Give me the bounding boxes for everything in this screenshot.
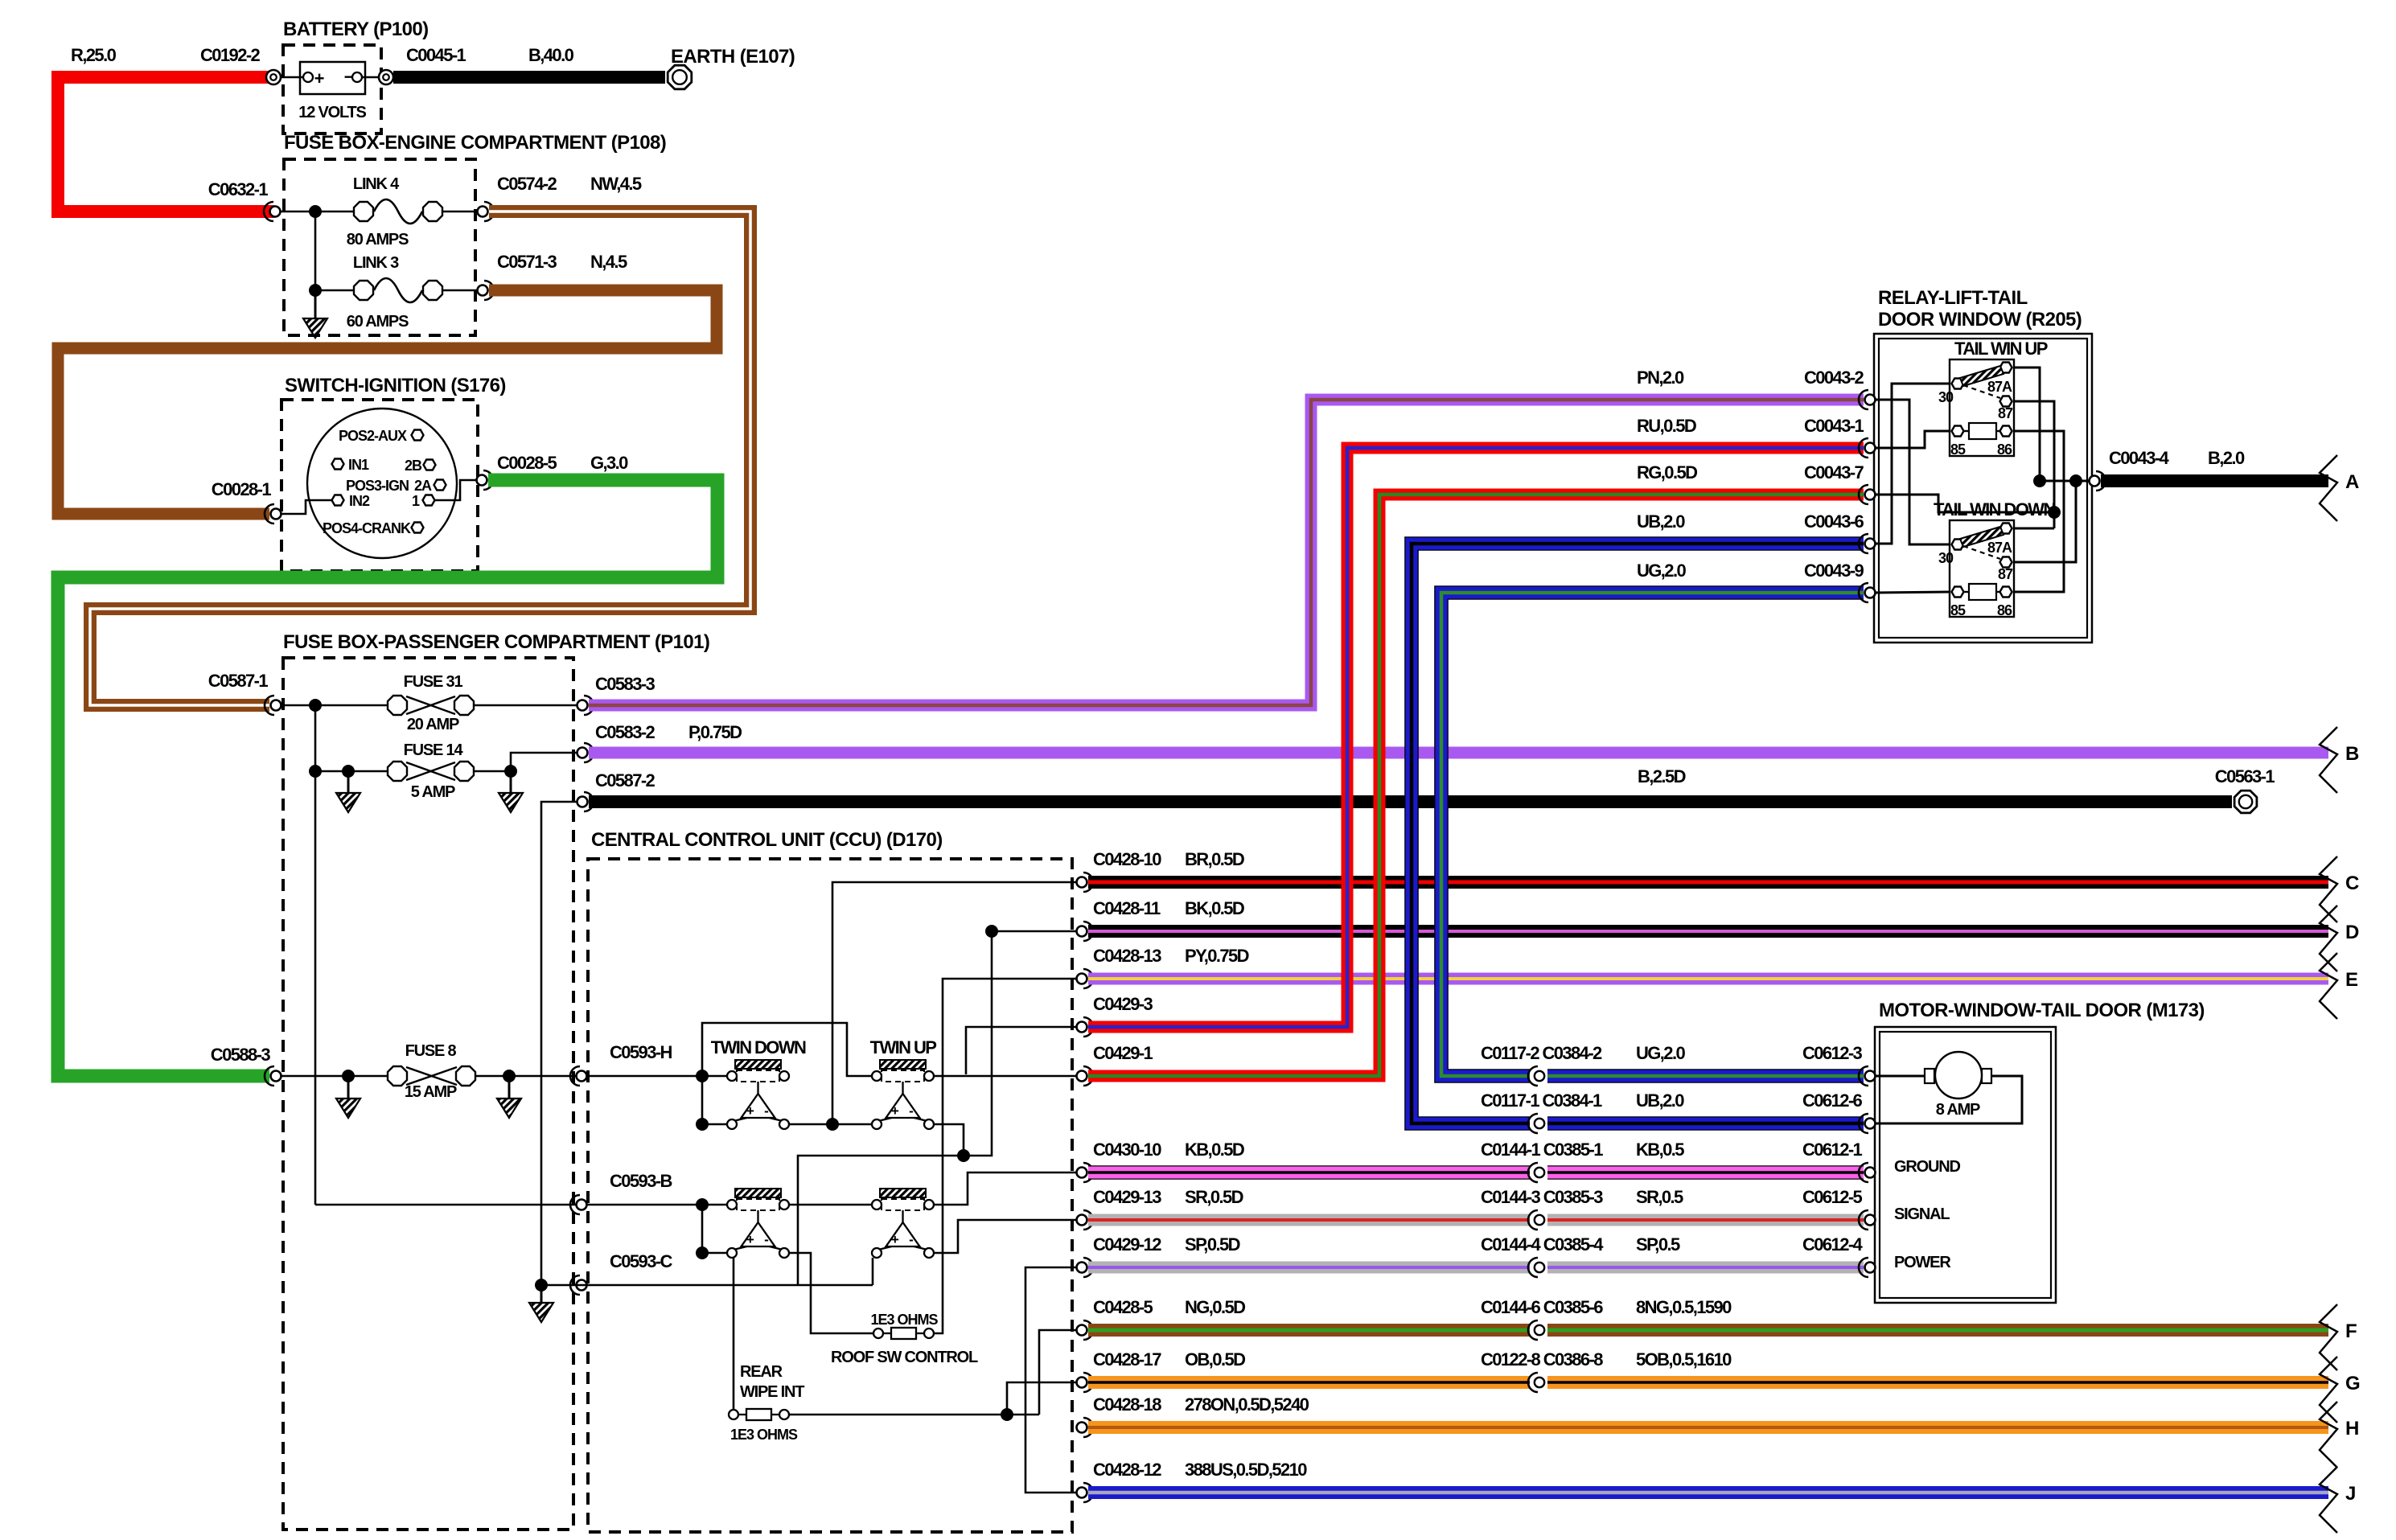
wire NG to arrow F	[1088, 1324, 2328, 1337]
wire BL-BR link	[789, 1204, 872, 1206]
svg-text:C0574-2: C0574-2	[497, 174, 557, 194]
svg-text:388US,0.5D,5210: 388US,0.5D,5210	[1185, 1460, 1307, 1480]
svg-text:BATTERY (P100): BATTERY (P100)	[283, 18, 429, 40]
battery pins	[281, 76, 303, 78]
wire C0593-B feed	[587, 1204, 727, 1206]
wire TU right to C0429-1	[934, 1075, 1076, 1078]
wire BK,0.5D to arrow D	[1088, 925, 2328, 938]
wire UB,2.0 relay to motor	[1412, 544, 1864, 1123]
svg-text:C0043-1: C0043-1	[1804, 416, 1864, 436]
svg-text:C0588-3: C0588-3	[211, 1045, 271, 1065]
svg-text:POS3-IGN: POS3-IGN	[346, 478, 409, 494]
svg-text:C0593-B: C0593-B	[610, 1171, 672, 1191]
svg-text:C0117-2 C0384-2: C0117-2 C0384-2	[1481, 1043, 1602, 1063]
svg-text:C0428-18: C0428-18	[1093, 1394, 1161, 1415]
wire fuse31 row	[282, 704, 387, 707]
wire RU to TWU 85	[1876, 431, 1951, 448]
battery P100 dashed box	[283, 45, 381, 133]
wire link3 row	[315, 290, 354, 292]
svg-text:UG,2.0: UG,2.0	[1637, 561, 1686, 581]
svg-text:C0192-2: C0192-2	[200, 45, 261, 65]
pin 86	[2000, 587, 2012, 598]
wire BL bottom-right to roof resistor	[789, 1253, 873, 1333]
svg-text:5 AMP: 5 AMP	[411, 783, 455, 801]
pin IN1	[332, 459, 344, 470]
svg-text:FUSE 31: FUSE 31	[404, 673, 463, 691]
wire R,25.0 red battery feed	[58, 77, 274, 211]
wire NW,4.5 brown with white trace	[90, 211, 750, 705]
svg-text:C0593-C: C0593-C	[610, 1251, 673, 1271]
wire TWU 87 down	[2012, 401, 2054, 528]
svg-text:-: -	[764, 1103, 768, 1119]
connector C0429-3	[1077, 1022, 1087, 1033]
connector C0593-B	[577, 1200, 587, 1210]
connector C0043-4	[2090, 476, 2100, 487]
wire PN,2.0 purple/brown	[589, 400, 1864, 705]
ring terminal C0563-1	[2234, 791, 2257, 813]
motor M173 inner box	[1880, 1032, 2051, 1298]
svg-text:C0117-1 C0384-1: C0117-1 C0384-1	[1481, 1090, 1602, 1111]
svg-text:UG,2.0: UG,2.0	[1636, 1043, 1685, 1063]
wire BR bottom-left down	[872, 1258, 874, 1285]
svg-text:B,40.0: B,40.0	[528, 45, 574, 65]
svg-text:UB,2.0: UB,2.0	[1637, 511, 1685, 532]
relay R205 inner box	[1879, 339, 2087, 638]
svg-text:R,25.0: R,25.0	[71, 45, 117, 65]
svg-text:F: F	[2345, 1320, 2357, 1342]
svg-text:C0583-3: C0583-3	[595, 674, 656, 694]
svg-text:D: D	[2345, 922, 2359, 943]
svg-text:-: -	[909, 1103, 913, 1119]
node fuse8 right	[503, 1070, 516, 1082]
svg-text:SP,0.5: SP,0.5	[1636, 1234, 1680, 1255]
wire TD-TU bottom link	[789, 1123, 872, 1126]
svg-text:N,4.5: N,4.5	[590, 252, 627, 272]
wire C0587-2 stub to ground rail	[541, 802, 577, 1285]
svg-text:LINK 4: LINK 4	[353, 175, 400, 193]
wire fuse14 row	[315, 770, 387, 773]
ground arrow P108	[314, 290, 317, 318]
ground arrow CCU	[540, 1285, 543, 1303]
svg-text:1E3 OHMS: 1E3 OHMS	[870, 1312, 938, 1328]
fuse FUSE 14	[388, 762, 407, 781]
svg-text:E: E	[2345, 969, 2358, 991]
svg-text:1E3 OHMS: 1E3 OHMS	[730, 1427, 798, 1443]
ground arrow fuse14 left	[347, 771, 350, 793]
ground arrow fuse14 right	[510, 771, 512, 793]
svg-text:BR,0.5D: BR,0.5D	[1185, 849, 1244, 869]
resistor roof sw control 1E3 OHMS	[873, 1329, 883, 1338]
unit lower-right driver	[880, 1189, 926, 1197]
svg-text:C0043-9: C0043-9	[1804, 561, 1864, 581]
svg-text:C0428-17: C0428-17	[1093, 1349, 1161, 1370]
svg-text:P,0.75D: P,0.75D	[688, 722, 742, 742]
svg-text:SP,0.5D: SP,0.5D	[1185, 1234, 1240, 1255]
svg-text:TAIL WIN DOWN: TAIL WIN DOWN	[1934, 499, 2055, 519]
svg-text:IN1: IN1	[348, 457, 369, 473]
off-page arrow D	[2320, 906, 2337, 971]
wire C0028-1 to IN2	[282, 500, 331, 514]
svg-text:C0593-H: C0593-H	[610, 1042, 672, 1062]
wire TWD 87 to A node	[2012, 481, 2076, 562]
svg-text:C0428-11: C0428-11	[1093, 898, 1161, 918]
pin 85	[1952, 426, 1964, 437]
pin 30	[1952, 379, 1964, 389]
svg-text:-: -	[909, 1232, 913, 1247]
svg-text:C0043-4: C0043-4	[2109, 448, 2170, 468]
wire B,2.0 to arrow A	[2101, 474, 2328, 487]
wire C0429-12 to C0428-12	[1025, 1267, 1076, 1493]
node fuse14 gnd	[342, 765, 355, 778]
svg-text:BK,0.5D: BK,0.5D	[1185, 898, 1244, 918]
svg-text:C0045-1: C0045-1	[406, 45, 466, 65]
pin 87	[2000, 396, 2012, 407]
connector C0612-4	[1865, 1263, 1876, 1273]
svg-text:MOTOR-WINDOW-TAIL DOOR (M173): MOTOR-WINDOW-TAIL DOOR (M173)	[1879, 1000, 2205, 1021]
svg-text:C0043-7: C0043-7	[1804, 462, 1864, 483]
svg-text:B: B	[2345, 743, 2359, 765]
wire A node	[2040, 480, 2089, 483]
wire TU bottom-right run	[798, 1124, 964, 1285]
pin IN2	[332, 495, 344, 506]
svg-text:87A: 87A	[1987, 379, 2012, 395]
wire C0428-10 to bottom link	[832, 882, 1076, 1124]
relay unit box	[1950, 359, 2014, 456]
svg-text:2A: 2A	[414, 478, 432, 494]
svg-text:C0429-3: C0429-3	[1093, 994, 1153, 1014]
pin 87A	[2000, 363, 2012, 373]
svg-text:2B: 2B	[405, 458, 422, 474]
wire fuse14 vertical to C0593-B	[314, 771, 317, 1205]
wire BR,0.5D to arrow C	[1088, 876, 2328, 889]
connector C0612-3	[1865, 1071, 1876, 1082]
wire rear wipe out	[789, 1414, 1039, 1416]
svg-text:RELAY-LIFT-TAIL: RELAY-LIFT-TAIL	[1878, 287, 2028, 309]
svg-text:20 AMP: 20 AMP	[407, 716, 459, 733]
svg-text:85: 85	[1950, 602, 1966, 618]
wire RG,0.5D to relay C0043-7	[1088, 495, 1864, 1076]
switch blade hatched	[1960, 366, 2004, 386]
inline connector C0117-1/C0384-1	[1530, 1116, 1547, 1131]
connector C0583-2	[577, 748, 588, 758]
svg-text:+: +	[891, 1232, 899, 1247]
svg-text:87: 87	[1998, 566, 2013, 582]
wire BR top-right to C0430-10	[934, 1172, 1076, 1205]
wire 86-86 link	[2012, 431, 2064, 592]
wire RG to node	[1876, 495, 2054, 512]
connector C0583-3	[577, 700, 588, 711]
wire PN to TWD 30	[1876, 400, 1951, 544]
connector C0428-18	[1077, 1423, 1087, 1433]
wire tap to C0428-5	[1039, 1330, 1076, 1415]
svg-text:FUSE 14: FUSE 14	[404, 741, 464, 759]
svg-text:C0028-1: C0028-1	[212, 479, 272, 499]
earth ring terminal E107	[668, 65, 692, 89]
svg-text:87: 87	[1998, 405, 2013, 421]
connector relay input y=497	[1865, 395, 1876, 405]
pin 2B	[424, 460, 436, 470]
svg-text:NW,4.5: NW,4.5	[590, 174, 642, 194]
svg-text:86: 86	[1997, 602, 2012, 618]
svg-text:1: 1	[412, 493, 420, 509]
svg-text:DOOR WINDOW (R205): DOOR WINDOW (R205)	[1878, 309, 2082, 331]
svg-text:C0144-1 C0385-1: C0144-1 C0385-1	[1481, 1140, 1603, 1160]
wire SR,0.5 to motor	[1088, 1214, 1864, 1226]
wire P,0.75D purple to arrow B	[589, 747, 2328, 759]
ground arrow fuse8 left	[347, 1076, 350, 1099]
off-page arrow C	[2320, 856, 2337, 922]
svg-text:C0428-5: C0428-5	[1093, 1297, 1153, 1317]
svg-text:B,2.0: B,2.0	[2208, 448, 2245, 468]
ground arrow fuse8 right	[508, 1076, 511, 1099]
connector C0428-12	[1077, 1488, 1087, 1498]
svg-text:C0612-6: C0612-6	[1802, 1090, 1863, 1111]
connector C0612-1	[1865, 1168, 1876, 1178]
fuse FUSE 8	[388, 1066, 407, 1086]
svg-text:C0612-5: C0612-5	[1802, 1187, 1863, 1207]
switch blade hatched	[1960, 527, 2004, 547]
relay R205 outer box	[1874, 334, 2092, 643]
svg-text:WIPE INT: WIPE INT	[740, 1383, 804, 1401]
connector C0028-1	[271, 509, 282, 519]
wire KB,0.5 to motor	[1088, 1165, 1864, 1180]
inline connector C0144-6/C0385-6	[1530, 1323, 1547, 1337]
svg-text:87A: 87A	[1987, 540, 2012, 556]
wire 388US to arrow J	[1088, 1486, 2328, 1499]
wire UG,2.0 relay to motor	[1441, 593, 1864, 1076]
off-page arrow A	[2320, 455, 2337, 521]
connector C0587-2	[577, 797, 588, 807]
wire TD to TU upper loop	[702, 1023, 872, 1076]
pin 87	[2000, 557, 2012, 568]
wire SP,0.5 to motor	[1088, 1262, 1864, 1274]
svg-text:+: +	[746, 1232, 754, 1247]
svg-text:IN2: IN2	[349, 493, 370, 509]
coil box	[1969, 423, 1996, 439]
svg-text:C0428-12: C0428-12	[1093, 1460, 1161, 1480]
svg-text:G,3.0: G,3.0	[590, 453, 628, 473]
wire 278ON to arrow H	[1088, 1421, 2328, 1434]
wire C0593-C stub	[547, 1284, 577, 1287]
svg-text:GROUND: GROUND	[1894, 1158, 1960, 1176]
svg-text:B,2.5D: B,2.5D	[1638, 766, 1686, 786]
fusible link LINK 3	[354, 281, 373, 300]
wire junction vertical	[314, 211, 317, 290]
pin POS2-AUX	[412, 430, 424, 441]
connector C0028-5	[477, 475, 487, 486]
off-page arrow J	[2320, 1467, 2337, 1533]
svg-text:C0587-2: C0587-2	[595, 770, 656, 791]
svg-text:C0144-6 C0385-6: C0144-6 C0385-6	[1481, 1297, 1603, 1317]
wire RU,0.5D to relay C0043-1	[1088, 448, 1864, 1027]
svg-text:+: +	[891, 1103, 899, 1119]
svg-text:TWIN DOWN: TWIN DOWN	[711, 1037, 806, 1057]
svg-text:OB,0.5D: OB,0.5D	[1185, 1349, 1245, 1370]
connector C0588-3	[271, 1071, 282, 1082]
inline connector C0144-1/C0385-1	[1530, 1165, 1547, 1180]
wire pin1 to C0028-5	[435, 480, 476, 500]
svg-text:KB,0.5D: KB,0.5D	[1185, 1140, 1244, 1160]
fuse box P101 dashed box	[283, 658, 573, 1530]
wire C0593-H feed	[587, 1075, 727, 1078]
CCU D170 dashed box	[588, 859, 1072, 1532]
svg-text:C0428-13: C0428-13	[1093, 946, 1161, 966]
svg-text:5OB,0.5,1610: 5OB,0.5,1610	[1636, 1349, 1732, 1370]
wire rear wipe feed	[733, 1258, 735, 1409]
inline connector C0144-3/C0385-3	[1530, 1213, 1547, 1227]
svg-text:LINK 3: LINK 3	[353, 254, 399, 272]
connector C0428-17	[1077, 1378, 1087, 1388]
connector C0574-2	[478, 207, 488, 217]
connector C0429-12	[1077, 1263, 1087, 1273]
svg-text:POWER: POWER	[1894, 1254, 1951, 1271]
dashed throw to 87	[1963, 385, 2000, 398]
svg-text:NG,0.5D: NG,0.5D	[1185, 1297, 1245, 1317]
node junction link3	[309, 284, 322, 297]
fuse box P108 dashed box	[284, 159, 475, 335]
connector C0428-11	[1077, 926, 1087, 937]
connector C0429-13	[1077, 1215, 1087, 1226]
svg-text:POS2-AUX: POS2-AUX	[339, 428, 407, 444]
svg-text:ROOF SW CONTROL: ROOF SW CONTROL	[831, 1349, 978, 1366]
node fuse8 left	[342, 1070, 355, 1082]
node B-BL	[696, 1198, 709, 1211]
svg-text:A: A	[2345, 471, 2359, 493]
wire C0593-C rail	[577, 1284, 873, 1287]
node junction link4	[309, 205, 322, 218]
svg-text:POS4-CRANK: POS4-CRANK	[323, 520, 411, 536]
svg-text:C0612-3: C0612-3	[1802, 1043, 1863, 1063]
svg-text:EARTH (E107): EARTH (E107)	[671, 46, 795, 68]
connector relay input y=676	[1865, 539, 1876, 549]
svg-text:15 AMP: 15 AMP	[405, 1083, 457, 1101]
svg-text:PN,2.0: PN,2.0	[1637, 368, 1684, 388]
connector C0429-1	[1077, 1071, 1087, 1082]
inline connector C0117-2/C0384-2	[1530, 1069, 1547, 1083]
pin 85	[1952, 587, 1964, 598]
svg-text:C0571-3: C0571-3	[497, 252, 557, 272]
svg-text:85: 85	[1950, 441, 1966, 458]
unit lower-left driver	[735, 1189, 781, 1197]
wire fuse8 row	[282, 1075, 387, 1078]
svg-text:8 AMP: 8 AMP	[1936, 1101, 1980, 1119]
battery B- ring C0045-1	[379, 70, 393, 84]
pin 1	[423, 495, 435, 506]
fuse FUSE 31	[388, 696, 407, 715]
wire TWD 87A join	[2012, 528, 2054, 530]
svg-text:30: 30	[1938, 550, 1954, 566]
wire fuse14 right	[475, 753, 577, 771]
svg-text:H: H	[2345, 1418, 2359, 1439]
connector C0428-10	[1077, 877, 1087, 888]
off-page arrow E	[2320, 953, 2337, 1019]
svg-text:-: -	[764, 1232, 768, 1247]
svg-text:TWIN UP: TWIN UP	[870, 1037, 937, 1057]
connector C0612-6	[1865, 1119, 1876, 1129]
pin 87A	[2000, 524, 2012, 534]
switch S176 dashed box	[282, 400, 478, 571]
inline connector C0122-8/C0386-8	[1530, 1375, 1547, 1390]
off-page arrow H	[2320, 1402, 2337, 1468]
node fuse14 left	[309, 765, 322, 778]
svg-text:+: +	[314, 68, 325, 88]
svg-text:C0632-1: C0632-1	[208, 179, 269, 199]
svg-text:60 AMPS: 60 AMPS	[347, 313, 409, 331]
svg-text:FUSE BOX-PASSENGER COMPARTMENT: FUSE BOX-PASSENGER COMPARTMENT (P101)	[283, 631, 709, 653]
node BK junction	[985, 925, 998, 938]
svg-text:C0144-3 C0385-3: C0144-3 C0385-3	[1481, 1187, 1603, 1207]
node A junctions	[2033, 474, 2046, 487]
connector C0430-10	[1077, 1168, 1087, 1178]
svg-text:C0612-1: C0612-1	[1802, 1140, 1863, 1160]
relay unit box	[1950, 520, 2014, 617]
off-page arrow G	[2320, 1357, 2337, 1423]
inline connector C0144-4/C0385-4	[1530, 1260, 1547, 1275]
svg-text:C0028-5: C0028-5	[497, 453, 557, 473]
svg-text:UB,2.0: UB,2.0	[1636, 1090, 1684, 1111]
svg-text:86: 86	[1997, 441, 2012, 458]
svg-text:RU,0.5D: RU,0.5D	[1637, 416, 1696, 436]
motor armature circle	[1925, 1069, 1934, 1083]
wire tap to C0428-17	[1007, 1382, 1076, 1415]
wire motor loop	[1876, 1075, 1925, 1078]
connector C0428-5	[1077, 1325, 1087, 1336]
node fuse31	[309, 699, 322, 712]
svg-text:RG,0.5D: RG,0.5D	[1637, 462, 1697, 483]
wire BL bottom-left feed	[701, 1205, 704, 1253]
connector relay input y=557	[1865, 443, 1876, 454]
battery B+ ring C0192-2	[266, 70, 281, 84]
svg-text:G: G	[2345, 1373, 2360, 1394]
wire C0429-3 tap	[966, 1027, 1076, 1074]
svg-text:SWITCH-IGNITION (S176): SWITCH-IGNITION (S176)	[285, 375, 506, 396]
svg-text:C0612-4: C0612-4	[1802, 1234, 1864, 1255]
coil box	[1969, 584, 1996, 600]
wire B,40.0 black to earth	[393, 71, 665, 84]
svg-text:C0430-10: C0430-10	[1093, 1140, 1161, 1160]
svg-text:C0144-4 C0385-4: C0144-4 C0385-4	[1481, 1234, 1604, 1255]
svg-text:C0043-6: C0043-6	[1804, 511, 1864, 532]
battery inner box	[300, 62, 365, 94]
connector relay input y=737	[1865, 588, 1876, 598]
svg-text:TAIL WIN UP: TAIL WIN UP	[1954, 339, 2048, 359]
fusible link LINK 4	[354, 202, 373, 221]
svg-text:J: J	[2345, 1483, 2356, 1505]
resistor rear wipe 1E3 OHMS	[729, 1410, 738, 1419]
wire N,4.5 brown	[58, 290, 717, 514]
svg-text:C0428-10: C0428-10	[1093, 849, 1161, 869]
svg-text:SR,0.5: SR,0.5	[1636, 1187, 1683, 1207]
wire OB to arrow G	[1088, 1376, 2328, 1389]
off-page arrow F	[2320, 1304, 2337, 1370]
svg-text:PY,0.75D: PY,0.75D	[1185, 946, 1249, 966]
svg-text:C: C	[2345, 873, 2359, 894]
svg-text:C0563-1: C0563-1	[2215, 766, 2275, 786]
wire to C0593-B	[315, 1204, 577, 1206]
wire B,2.5D black	[589, 795, 2232, 808]
svg-text:FUSE 8: FUSE 8	[405, 1042, 457, 1060]
svg-text:SIGNAL: SIGNAL	[1894, 1205, 1950, 1223]
svg-text:SR,0.5D: SR,0.5D	[1185, 1187, 1243, 1207]
svg-text:C0043-2: C0043-2	[1804, 368, 1864, 388]
node C0593-C ground	[535, 1279, 548, 1292]
pin 86	[2000, 426, 2012, 437]
svg-text:30: 30	[1938, 389, 1954, 405]
svg-text:CENTRAL CONTROL UNIT (CCU) (D1: CENTRAL CONTROL UNIT (CCU) (D170)	[591, 829, 943, 851]
svg-text:REAR: REAR	[740, 1363, 783, 1381]
node rear wipe taps	[1001, 1408, 1013, 1421]
svg-text:C0587-1: C0587-1	[208, 671, 269, 691]
